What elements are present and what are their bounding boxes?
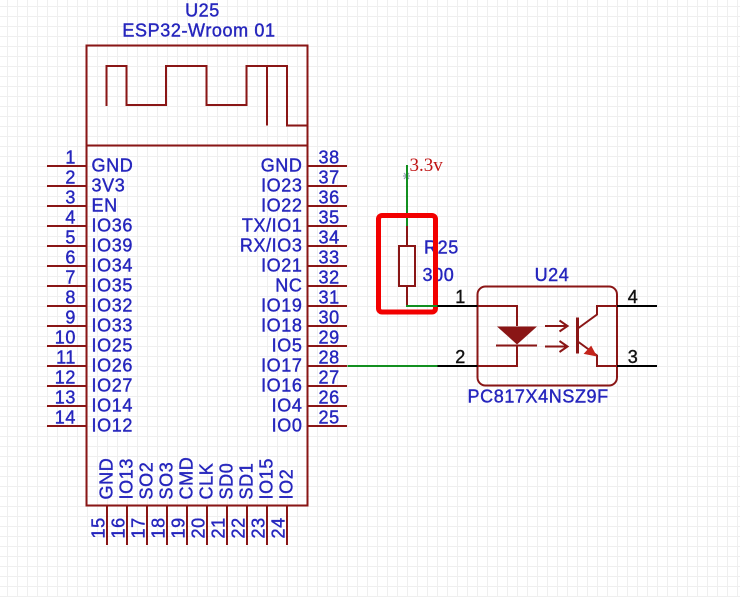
U25 pin 38 (GND) bbox=[261, 148, 347, 176]
svg-text:8: 8 bbox=[65, 288, 76, 308]
svg-text:IO39: IO39 bbox=[92, 236, 133, 256]
svg-text:IO25: IO25 bbox=[92, 336, 133, 356]
svg-text:IO14: IO14 bbox=[92, 396, 133, 416]
U25 pin 28 (IO17) bbox=[261, 348, 347, 376]
U25 pin 7 (IO35) bbox=[47, 268, 133, 296]
U25 pin 23 (IO15) bbox=[249, 458, 277, 545]
svg-text:21: 21 bbox=[209, 517, 229, 538]
svg-text:22: 22 bbox=[229, 517, 249, 538]
svg-text:PC817X4NSZ9F: PC817X4NSZ9F bbox=[468, 387, 609, 407]
power net flag 3.3v bbox=[410, 155, 444, 176]
svg-text:IO32: IO32 bbox=[92, 296, 133, 316]
svg-text:6: 6 bbox=[65, 248, 76, 268]
U25 pin 24 (IO2) bbox=[269, 469, 297, 545]
svg-text:EN: EN bbox=[92, 196, 118, 216]
U25 pin 5 (IO39) bbox=[47, 228, 133, 256]
U25 pin 11 (IO26) bbox=[47, 348, 133, 376]
U25 pin 35 (TX/IO1) bbox=[242, 208, 347, 236]
U24 pin 4 bbox=[617, 287, 657, 307]
U25 pin 8 (IO32) bbox=[47, 288, 133, 316]
U25 pin 37 (IO23) bbox=[261, 168, 347, 196]
IC U25 body outline bbox=[87, 46, 308, 506]
U25 pin 29 (IO5) bbox=[272, 328, 347, 356]
U25 pin 27 (IO16) bbox=[261, 368, 347, 396]
svg-text:IO23: IO23 bbox=[261, 176, 302, 196]
svg-text:TX/IO1: TX/IO1 bbox=[242, 216, 303, 236]
svg-text:30: 30 bbox=[319, 308, 340, 328]
wire U25 pin 28 to U24 pin 2 bbox=[348, 365, 439, 367]
svg-text:IO21: IO21 bbox=[261, 256, 302, 276]
U24 pin 2 bbox=[438, 347, 478, 367]
svg-text:4: 4 bbox=[628, 287, 639, 307]
svg-text:IO36: IO36 bbox=[92, 216, 133, 236]
svg-text:15: 15 bbox=[89, 517, 109, 538]
svg-text:29: 29 bbox=[319, 328, 340, 348]
svg-text:5: 5 bbox=[65, 228, 76, 248]
U25 pin 21 (SD0) bbox=[209, 463, 237, 545]
svg-text:U24: U24 bbox=[535, 265, 570, 285]
svg-text:RX/IO3: RX/IO3 bbox=[240, 236, 303, 256]
svg-text:IO34: IO34 bbox=[92, 256, 133, 276]
svg-text:CMD: CMD bbox=[177, 457, 197, 500]
svg-text:IO0: IO0 bbox=[272, 416, 303, 436]
U25 pin 22 (SD1) bbox=[229, 463, 257, 545]
svg-text:9: 9 bbox=[65, 308, 76, 328]
svg-text:GND: GND bbox=[261, 156, 303, 176]
svg-text:28: 28 bbox=[319, 348, 340, 368]
svg-text:3: 3 bbox=[628, 347, 639, 367]
U25 pin 15 (GND) bbox=[89, 458, 117, 545]
U25 pin 32 (NC) bbox=[275, 268, 347, 296]
U25 pin 1 (GND) bbox=[47, 148, 133, 176]
svg-text:IO19: IO19 bbox=[261, 296, 302, 316]
svg-text:32: 32 bbox=[319, 268, 340, 288]
U25 pin 26 (IO4) bbox=[272, 388, 347, 416]
svg-text:36: 36 bbox=[319, 188, 340, 208]
U25 antenna meander bbox=[107, 66, 308, 126]
svg-text:IO15: IO15 bbox=[257, 458, 277, 499]
U25 pin 14 (IO12) bbox=[47, 408, 133, 436]
svg-text:4: 4 bbox=[65, 208, 76, 228]
svg-text:3.3v: 3.3v bbox=[410, 155, 444, 176]
wire R25 to U24 pin 1 bbox=[406, 305, 438, 307]
svg-text:17: 17 bbox=[129, 517, 149, 538]
svg-text:U25: U25 bbox=[185, 1, 220, 21]
svg-text:IO35: IO35 bbox=[92, 276, 133, 296]
U25 pin 33 (IO21) bbox=[261, 248, 347, 276]
svg-text:SO2: SO2 bbox=[137, 462, 157, 500]
U25 pin 9 (IO33) bbox=[47, 308, 133, 336]
svg-text:12: 12 bbox=[55, 368, 76, 388]
U25 pin 19 (CMD) bbox=[169, 457, 197, 545]
svg-text:ESP32-Wroom 01: ESP32-Wroom 01 bbox=[122, 21, 275, 41]
U25 pin 6 (IO34) bbox=[47, 248, 133, 276]
wire 3.3v to R25 bbox=[406, 165, 408, 227]
svg-text:IO33: IO33 bbox=[92, 316, 133, 336]
optocoupler U24 body bbox=[478, 287, 618, 386]
svg-text:SO3: SO3 bbox=[157, 462, 177, 500]
svg-text:IO17: IO17 bbox=[261, 356, 302, 376]
U25 pin 17 (SO2) bbox=[129, 462, 157, 545]
svg-text:35: 35 bbox=[319, 208, 340, 228]
svg-text:37: 37 bbox=[319, 168, 340, 188]
svg-text:27: 27 bbox=[319, 368, 340, 388]
svg-text:2: 2 bbox=[65, 168, 76, 188]
svg-text:13: 13 bbox=[55, 388, 76, 408]
U25 pin 25 (IO0) bbox=[272, 408, 347, 436]
U24 pin 1 bbox=[438, 287, 478, 307]
svg-text:11: 11 bbox=[56, 348, 76, 368]
svg-text:1: 1 bbox=[65, 148, 76, 168]
svg-text:IO5: IO5 bbox=[272, 336, 303, 356]
svg-text:IO16: IO16 bbox=[261, 376, 302, 396]
svg-text:26: 26 bbox=[319, 388, 340, 408]
U25 pin 2 (3V3) bbox=[47, 168, 125, 196]
svg-text:16: 16 bbox=[109, 517, 129, 538]
svg-text:14: 14 bbox=[55, 408, 76, 428]
svg-text:25: 25 bbox=[319, 408, 340, 428]
svg-text:300: 300 bbox=[423, 265, 455, 285]
svg-text:23: 23 bbox=[249, 517, 269, 538]
svg-text:R25: R25 bbox=[424, 238, 459, 258]
svg-text:2: 2 bbox=[455, 347, 466, 367]
U25 pin 31 (IO19) bbox=[261, 288, 347, 316]
U25 pin 13 (IO14) bbox=[47, 388, 133, 416]
svg-text:IO27: IO27 bbox=[92, 376, 133, 396]
U24 light arrows bbox=[545, 321, 568, 353]
svg-text:SD0: SD0 bbox=[217, 463, 237, 500]
svg-text:18: 18 bbox=[149, 517, 169, 538]
svg-text:33: 33 bbox=[319, 248, 340, 268]
svg-text:GND: GND bbox=[97, 458, 117, 500]
svg-text:3: 3 bbox=[65, 188, 76, 208]
U25 pin 30 (IO18) bbox=[261, 308, 347, 336]
svg-text:3V3: 3V3 bbox=[92, 176, 126, 196]
U25 pin 18 (SO3) bbox=[149, 462, 177, 545]
svg-text:GND: GND bbox=[92, 156, 134, 176]
svg-text:SD1: SD1 bbox=[237, 463, 257, 500]
U25 pin 4 (IO36) bbox=[47, 208, 133, 236]
svg-text:IO26: IO26 bbox=[92, 356, 133, 376]
svg-text:CLK: CLK bbox=[197, 463, 217, 500]
svg-text:1: 1 bbox=[455, 287, 466, 307]
svg-text:IO13: IO13 bbox=[117, 458, 137, 499]
resistor R25 bbox=[399, 226, 415, 306]
svg-text:38: 38 bbox=[319, 148, 340, 168]
svg-text:IO12: IO12 bbox=[92, 416, 133, 436]
selection highlight box around R25 bbox=[379, 216, 436, 313]
svg-text:34: 34 bbox=[319, 228, 340, 248]
U25 pin 36 (IO22) bbox=[261, 188, 347, 216]
svg-text:7: 7 bbox=[65, 268, 76, 288]
svg-text:IO4: IO4 bbox=[272, 396, 303, 416]
svg-text:31: 31 bbox=[319, 288, 340, 308]
svg-text:IO2: IO2 bbox=[277, 469, 297, 500]
svg-text:19: 19 bbox=[169, 517, 189, 538]
U24 pin 3 bbox=[617, 347, 657, 367]
svg-text:10: 10 bbox=[55, 328, 76, 348]
U25 pin 12 (IO27) bbox=[47, 368, 133, 396]
svg-text:24: 24 bbox=[269, 517, 289, 538]
svg-text:20: 20 bbox=[189, 517, 209, 538]
net connection star bbox=[403, 173, 410, 179]
U25 pin 16 (IO13) bbox=[109, 458, 137, 545]
svg-text:IO22: IO22 bbox=[261, 196, 302, 216]
U24 LED (emitter diode) bbox=[478, 306, 538, 366]
U25 pin 3 (EN) bbox=[47, 188, 118, 216]
svg-text:IO18: IO18 bbox=[261, 316, 302, 336]
U25 pin 34 (RX/IO3) bbox=[240, 228, 347, 256]
svg-text:NC: NC bbox=[275, 276, 302, 296]
U25 pin 10 (IO25) bbox=[47, 328, 133, 356]
U25 pin 20 (CLK) bbox=[189, 463, 217, 545]
U24 phototransistor bbox=[578, 306, 618, 366]
